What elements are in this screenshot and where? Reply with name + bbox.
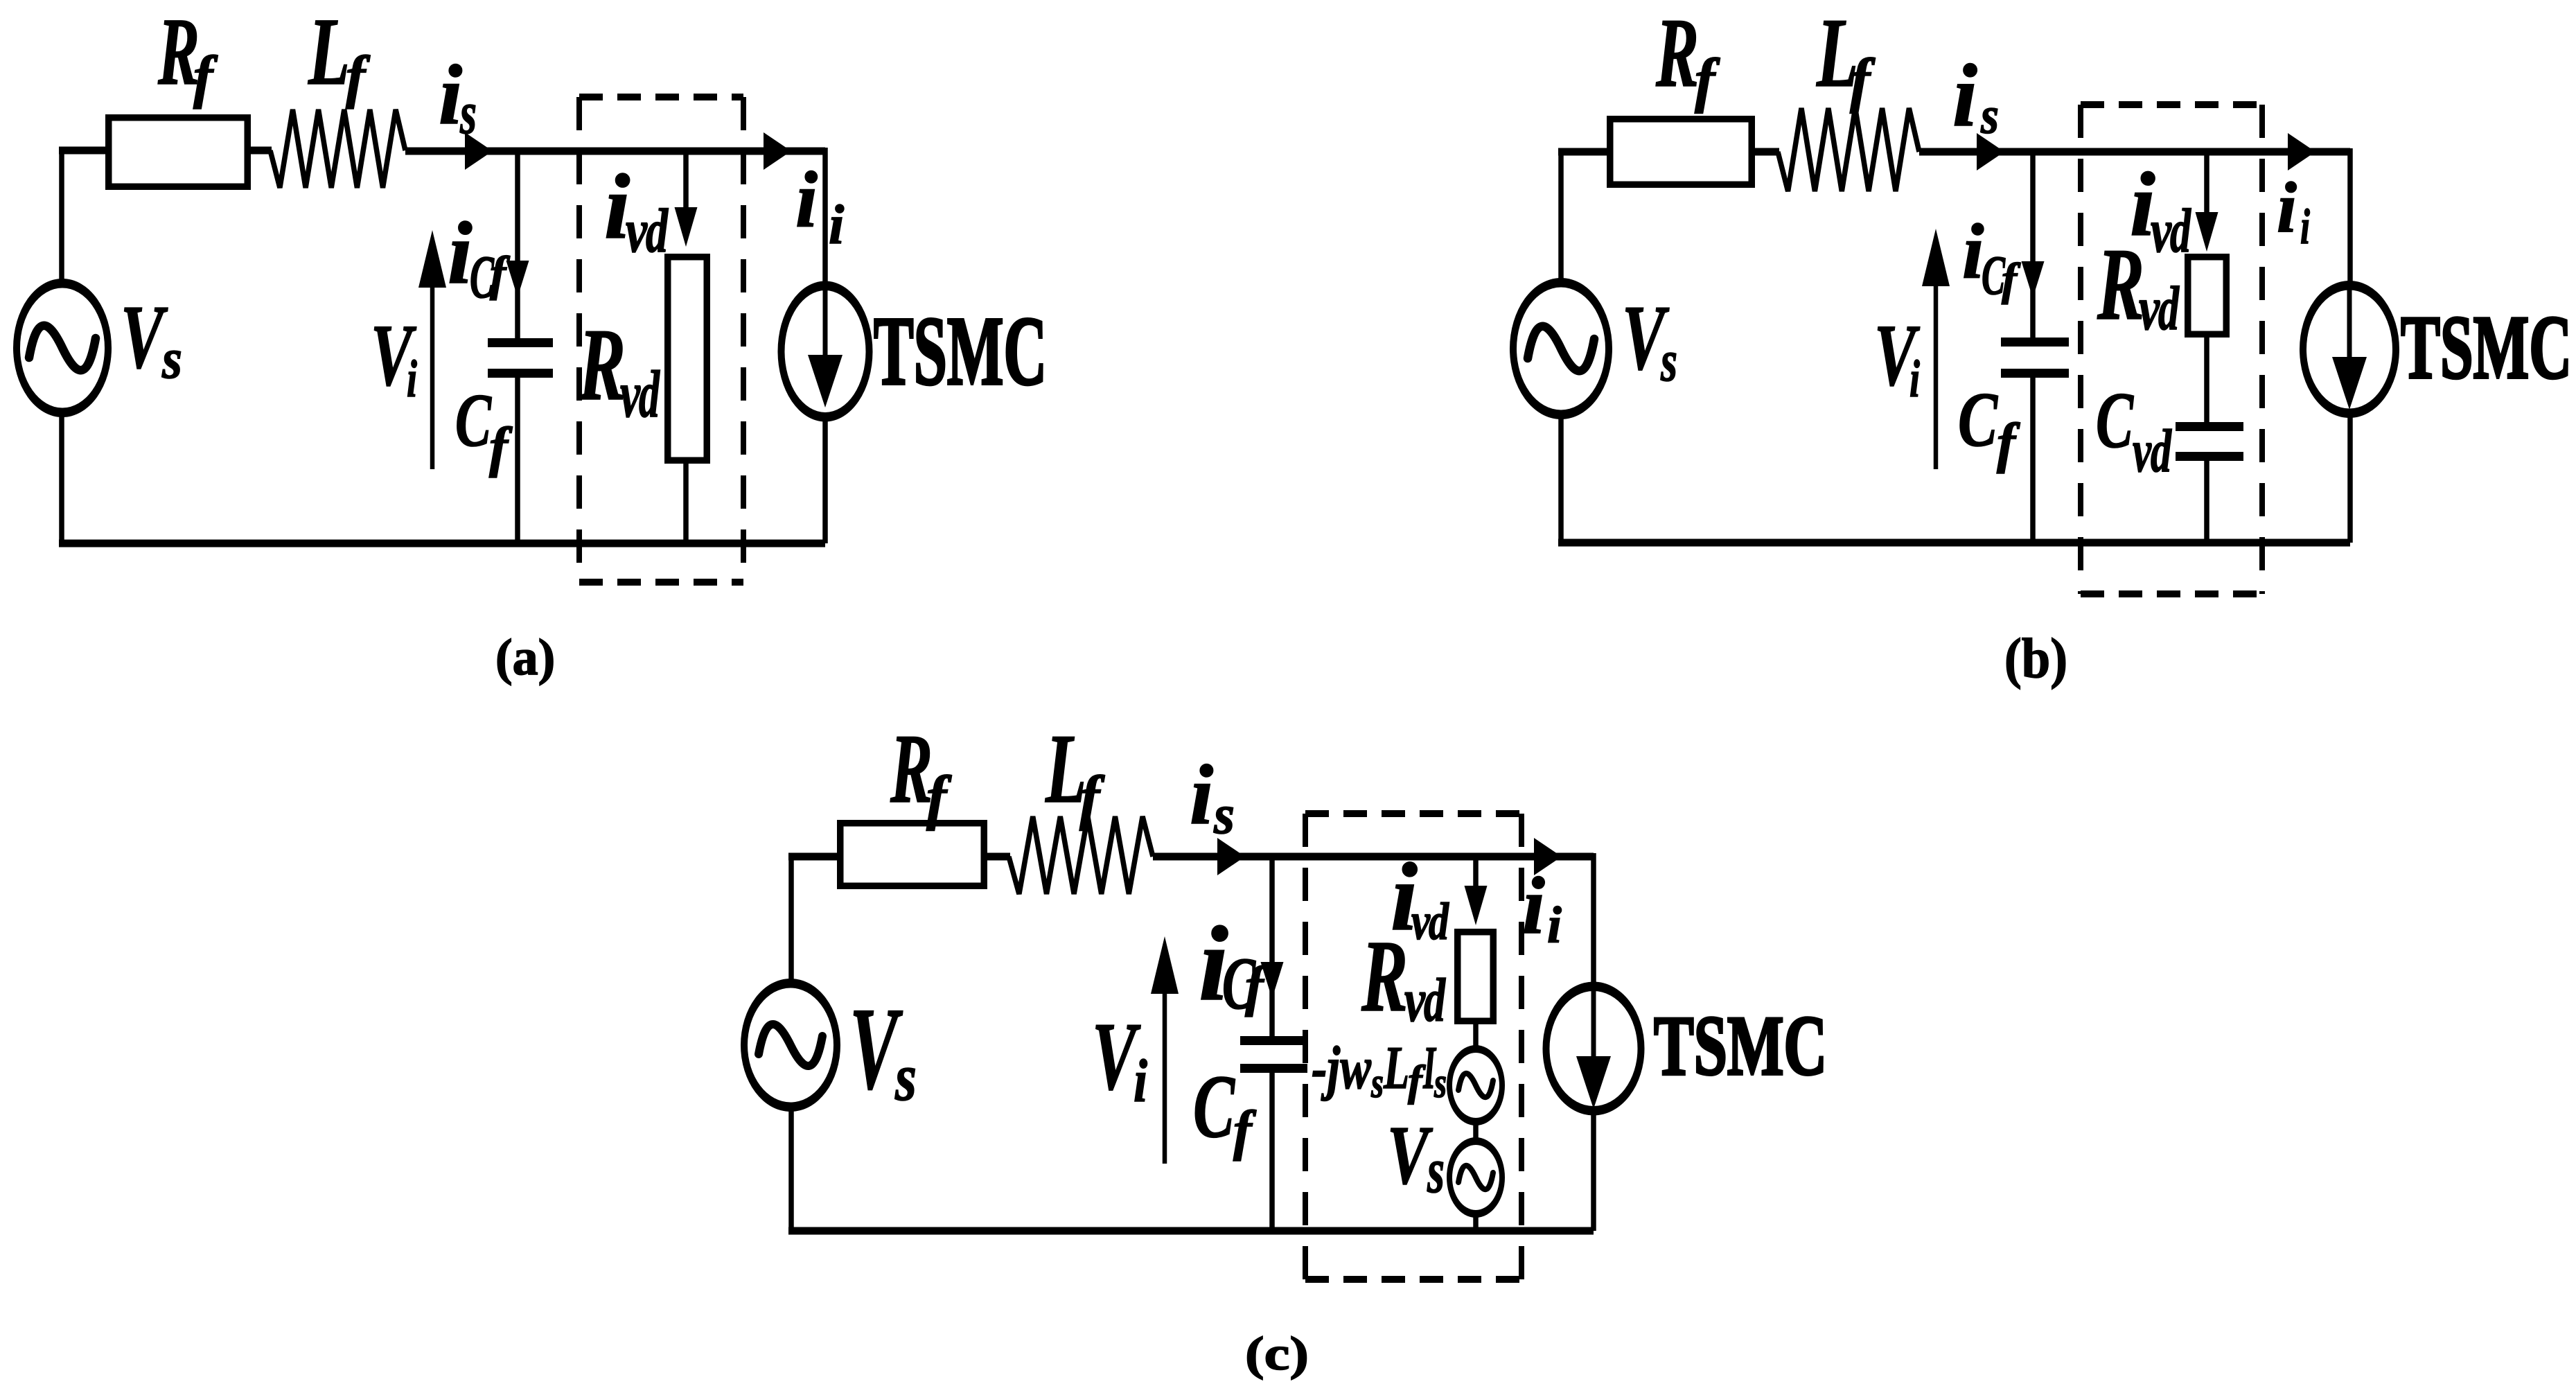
label i_Cf (b): [1962, 209, 2021, 306]
wire right vertical upper (a): [822, 148, 828, 283]
capacitor C_f upper plate (a): [488, 338, 553, 347]
wire resistor to inductor stub (a): [251, 147, 272, 155]
voltage arrow V_i shaft (c): [1163, 987, 1167, 1164]
TSMC arrow head (b): [2332, 357, 2367, 410]
virtual damping dashed box (c): [1305, 814, 1521, 1279]
svg-text:d: d: [2158, 274, 2180, 343]
source V_s inner (c): [1447, 1137, 1505, 1218]
resistor R_f (c): [840, 823, 985, 886]
label -jw_sL_fI_s (c): [1312, 1035, 1447, 1107]
svg-text:i: i: [448, 204, 473, 302]
label i_s (c): [1190, 747, 1235, 846]
svg-text:i: i: [1962, 209, 1984, 295]
label L_f (a): [308, 0, 371, 110]
wire right vertical upper (c): [1591, 853, 1596, 983]
svg-text:V: V: [1387, 1109, 1433, 1202]
svg-text:d: d: [1429, 893, 1449, 951]
wire R_vd to source (c): [1473, 1024, 1479, 1048]
label (b): [2004, 627, 2067, 690]
svg-text:s: s: [1213, 785, 1235, 846]
svg-text:d: d: [646, 197, 669, 265]
wire C_vd to bottom (b): [2204, 461, 2209, 543]
voltage arrow V_i head (b): [1922, 229, 1950, 286]
voltage source V_s (c): [741, 979, 840, 1112]
wire right vertical lower (a): [822, 419, 828, 543]
wire i_vd branch upper (c): [1473, 853, 1479, 890]
svg-text:s: s: [161, 326, 182, 390]
wire resistor to inductor stub (c): [987, 853, 1010, 861]
current arrow i_vd (b): [2196, 212, 2218, 252]
wire right vertical lower (c): [1591, 1114, 1596, 1231]
svg-text:TSMC: TSMC: [874, 296, 1047, 405]
TSMC arrow head (c): [1576, 1056, 1611, 1109]
current arrow i_s (a): [465, 132, 493, 170]
label (a): [495, 629, 555, 686]
capacitor C_f lower plate (c): [1240, 1064, 1307, 1073]
svg-text:C: C: [1193, 1057, 1235, 1157]
svg-text:d: d: [2170, 197, 2191, 265]
svg-text:C: C: [1958, 377, 1998, 463]
inductor L_f (b): [1778, 108, 1919, 191]
TSMC arrow head (a): [808, 355, 843, 408]
svg-text:s: s: [1433, 1060, 1447, 1107]
label TSMC (c): [1654, 998, 1827, 1093]
label TSMC (a): [874, 296, 1047, 405]
wire between sources (c): [1473, 1123, 1479, 1139]
svg-text:i: i: [2277, 168, 2297, 247]
svg-text:(b): (b): [2004, 627, 2067, 690]
wire top main (c): [1153, 853, 1594, 861]
label V_i (a): [371, 307, 417, 408]
wire C_f branch lower (c): [1269, 1073, 1275, 1231]
voltage source V_s (a): [13, 279, 112, 417]
capacitor C_f upper plate (c): [1240, 1036, 1307, 1045]
resistor R_vd (a): [668, 257, 707, 461]
wire bottom (b): [1558, 539, 2350, 547]
wire C_f branch lower (a): [515, 378, 520, 543]
svg-text:i: i: [795, 156, 818, 244]
wire top-left segment (c): [788, 853, 837, 861]
resistor R_vd (b): [2188, 257, 2227, 335]
svg-text:i: i: [1522, 860, 1545, 951]
wire right vertical upper (b): [2347, 148, 2353, 282]
label i_i (c): [1522, 860, 1562, 954]
svg-text:v: v: [2133, 418, 2152, 485]
svg-text:R: R: [578, 308, 626, 422]
label (c): [1245, 1327, 1309, 1380]
label R_vd (a): [578, 308, 660, 431]
inductor L_f (a): [270, 110, 405, 188]
label R_vd (c): [1361, 920, 1446, 1035]
capacitor C_vd lower plate (b): [2176, 452, 2243, 461]
TSMC arrow shaft (c): [1591, 987, 1596, 1060]
current arrow i_s (c): [1217, 838, 1245, 875]
wire left vertical upper (c): [788, 853, 794, 981]
wire left vertical upper (a): [59, 147, 64, 280]
svg-text:L: L: [308, 0, 350, 105]
label C_f (b): [1958, 377, 2020, 474]
label i_i (b): [2277, 168, 2310, 254]
wire top main (a): [405, 148, 825, 155]
label V_s (b): [1622, 286, 1677, 394]
svg-text:v: v: [2151, 197, 2172, 265]
label L_f (c): [1045, 714, 1105, 832]
wire left vertical upper (b): [1558, 148, 1564, 279]
current arrow i_i (c): [1534, 838, 1562, 875]
svg-text:C: C: [2096, 376, 2134, 464]
label R_vd (b): [2097, 227, 2180, 343]
voltage arrow V_i head (c): [1151, 936, 1179, 994]
svg-text:(c): (c): [1245, 1327, 1309, 1380]
current arrow i_i (b): [2288, 133, 2315, 170]
inductor L_f (c): [1009, 816, 1153, 894]
current arrow i_i (a): [764, 132, 791, 170]
svg-text:s: s: [894, 1040, 917, 1114]
svg-text:-jw: -jw: [1312, 1035, 1371, 1102]
svg-text:d: d: [1424, 967, 1446, 1035]
svg-text:i: i: [2300, 199, 2310, 254]
label i_vd (a): [604, 155, 669, 265]
svg-text:i: i: [1952, 46, 1977, 145]
resistor R_f (b): [1610, 119, 1752, 185]
wire bottom (c): [788, 1227, 1594, 1235]
svg-text:v: v: [1404, 967, 1426, 1035]
current arrow i_vd (a): [675, 207, 698, 247]
label R_f (a): [157, 0, 218, 110]
current arrow i_s (b): [1977, 133, 2004, 170]
current source TSMC (b): [2300, 281, 2399, 418]
virtual damping dashed box (a): [579, 97, 743, 582]
wire C_f branch upper (a): [515, 148, 520, 339]
svg-text:TSMC: TSMC: [2401, 297, 2572, 398]
svg-text:s: s: [1980, 87, 1999, 145]
wire R_vd to C_vd (b): [2204, 338, 2209, 423]
label i_s (a): [439, 47, 477, 146]
svg-text:i: i: [1547, 897, 1562, 954]
svg-text:d: d: [639, 357, 660, 431]
current arrow i_Cf (a): [506, 261, 529, 297]
wire source to bottom (c): [1473, 1216, 1479, 1231]
label C_f (a): [455, 378, 513, 478]
wire resistor to inductor stub (b): [1755, 148, 1779, 156]
svg-text:s: s: [459, 79, 477, 146]
wire left vertical lower (a): [59, 416, 64, 543]
svg-text:TSMC: TSMC: [1654, 998, 1827, 1093]
V_s sine symbol (b): [1528, 326, 1594, 371]
controlled source -jw_sL_fI_s (c): [1447, 1045, 1505, 1125]
resistor R_f (a): [109, 118, 248, 187]
svg-text:v: v: [1411, 893, 1431, 951]
wire R_vd to bottom (a): [683, 464, 689, 543]
voltage arrow V_i shaft (b): [1934, 281, 1939, 469]
label i_vd (c): [1391, 843, 1449, 951]
capacitor C_f upper plate (b): [2001, 338, 2069, 347]
svg-text:V: V: [121, 287, 168, 387]
label R_f (b): [1655, 0, 1720, 114]
label V_s (c): [849, 983, 917, 1114]
voltage arrow V_i head (a): [418, 230, 446, 288]
V_s sine symbol (a): [29, 326, 96, 370]
label C_f (c): [1193, 1057, 1257, 1162]
label i_i (a): [795, 156, 844, 256]
label i_Cf (a): [448, 204, 511, 311]
current arrow i_Cf (c): [1261, 962, 1284, 999]
wire C_f branch lower (b): [2030, 378, 2036, 543]
svg-text:L: L: [1383, 1035, 1409, 1102]
svg-text:v: v: [620, 357, 641, 431]
svg-text:s: s: [1660, 329, 1677, 394]
current source TSMC (c): [1543, 982, 1645, 1116]
label V_i (c): [1092, 1003, 1147, 1115]
voltage arrow V_i shaft (a): [430, 283, 435, 469]
wire i_vd branch upper (b): [2204, 148, 2209, 214]
TSMC arrow shaft (b): [2347, 288, 2352, 362]
svg-text:v: v: [2139, 274, 2160, 343]
TSMC arrow shaft (a): [823, 290, 828, 364]
virtual damping dashed box (b): [2081, 105, 2262, 594]
wire bottom (a): [59, 540, 825, 548]
label L_f (b): [1816, 0, 1876, 114]
svg-text:v: v: [626, 197, 648, 265]
svg-text:i: i: [1133, 1048, 1147, 1115]
wire left vertical lower (c): [788, 1109, 794, 1231]
svg-text:i: i: [439, 47, 462, 142]
svg-text:i: i: [1909, 350, 1920, 408]
label V_s (a): [121, 287, 182, 390]
label R_f (c): [890, 714, 952, 832]
capacitor C_f lower plate (a): [488, 369, 553, 378]
wire C_f branch upper (b): [2030, 148, 2036, 338]
-jw_sL_fI_s sine symbol (c): [1458, 1074, 1493, 1097]
svg-text:s: s: [1370, 1060, 1384, 1107]
svg-text:s: s: [1427, 1135, 1445, 1207]
svg-text:(a): (a): [495, 629, 555, 686]
current arrow i_vd (c): [1465, 886, 1488, 925]
capacitor C_vd upper plate (b): [2176, 422, 2243, 431]
label i_s (b): [1952, 46, 1999, 145]
wire right vertical lower (b): [2347, 417, 2353, 543]
capacitor C_f lower plate (b): [2001, 369, 2069, 378]
label i_vd (b): [2130, 153, 2191, 265]
current arrow i_Cf (b): [2022, 261, 2045, 298]
current source TSMC (a): [778, 281, 873, 422]
V_s inner sine symbol (c): [1458, 1166, 1493, 1189]
wire left vertical lower (b): [1558, 417, 1564, 543]
V_s sine symbol (c): [759, 1024, 822, 1066]
wire i_vd branch upper (a): [683, 148, 689, 209]
wire top main (b): [1919, 148, 2350, 156]
svg-text:d: d: [2151, 418, 2172, 485]
svg-text:R: R: [1655, 0, 1699, 107]
label TSMC (b): [2401, 297, 2572, 398]
wire top-left segment (b): [1558, 148, 1607, 156]
svg-text:i: i: [829, 195, 844, 256]
svg-text:i: i: [407, 350, 417, 408]
svg-text:i: i: [1190, 747, 1213, 842]
label i_Cf (c): [1199, 905, 1269, 1025]
resistor R_vd (c): [1458, 932, 1494, 1022]
label V_i (b): [1874, 307, 1921, 408]
voltage source V_s (b): [1510, 278, 1612, 419]
wire C_f branch upper (c): [1269, 853, 1275, 1037]
label C_vd (b): [2096, 376, 2172, 485]
label V_s inner (c): [1387, 1109, 1445, 1207]
svg-text:C: C: [455, 378, 492, 462]
wire top-left segment (a): [59, 147, 105, 155]
